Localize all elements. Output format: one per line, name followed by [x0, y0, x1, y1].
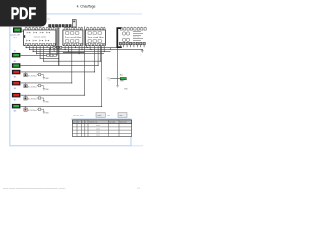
svg-text:xxxxxxx xxx: xxxxxxx xxx [89, 122, 98, 124]
svg-text:1xx and like: 1xx and like [65, 37, 83, 39]
svg-text:1xx and like: 1xx and like [87, 37, 105, 39]
svg-text:mm mm: mm mm [133, 37, 140, 39]
svg-text:xxxxx: xxxxx [96, 135, 100, 137]
svg-text:xxx: xxx [107, 115, 110, 117]
svg-text:xxx xxx xxxxx: xxx xxx xxxxx [34, 36, 46, 38]
svg-text:xxx xxxx: xxx xxxx [109, 122, 115, 124]
svg-text:xxx xxx xxxx: xxx xxx xxxx [73, 115, 84, 117]
svg-text:Bxx: Bxx [120, 75, 123, 77]
svg-text:4. Chauffage: 4. Chauffage [77, 4, 96, 8]
svg-text:xxxxx: xxxxx [96, 128, 100, 130]
svg-text:xxx: xxx [73, 122, 76, 124]
svg-text:xx x: xx x [13, 37, 16, 39]
svg-text:PDF: PDF [11, 5, 36, 23]
svg-text:xxxx: xxxx [98, 115, 102, 117]
svg-text:xxxxx: xxxxx [96, 125, 100, 127]
svg-text:xxxx xxxx: xxxx xxxx [120, 122, 127, 124]
svg-text:xx: xx [78, 122, 80, 124]
svg-text:xx: xx [108, 79, 110, 81]
svg-text:xxxxx.xxxxxx.xxx/xxxxxx/xxxxxx: xxxxx.xxxxxx.xxx/xxxxxx/xxxxxxxxxxxxx/xx… [3, 188, 66, 190]
svg-text:xxx: xxx [120, 115, 123, 117]
svg-text:xxxxx: xxxxx [96, 132, 100, 134]
svg-text:Loxone 24V: Loxone 24V [10, 34, 21, 36]
svg-text:xxx: xxx [47, 18, 50, 20]
